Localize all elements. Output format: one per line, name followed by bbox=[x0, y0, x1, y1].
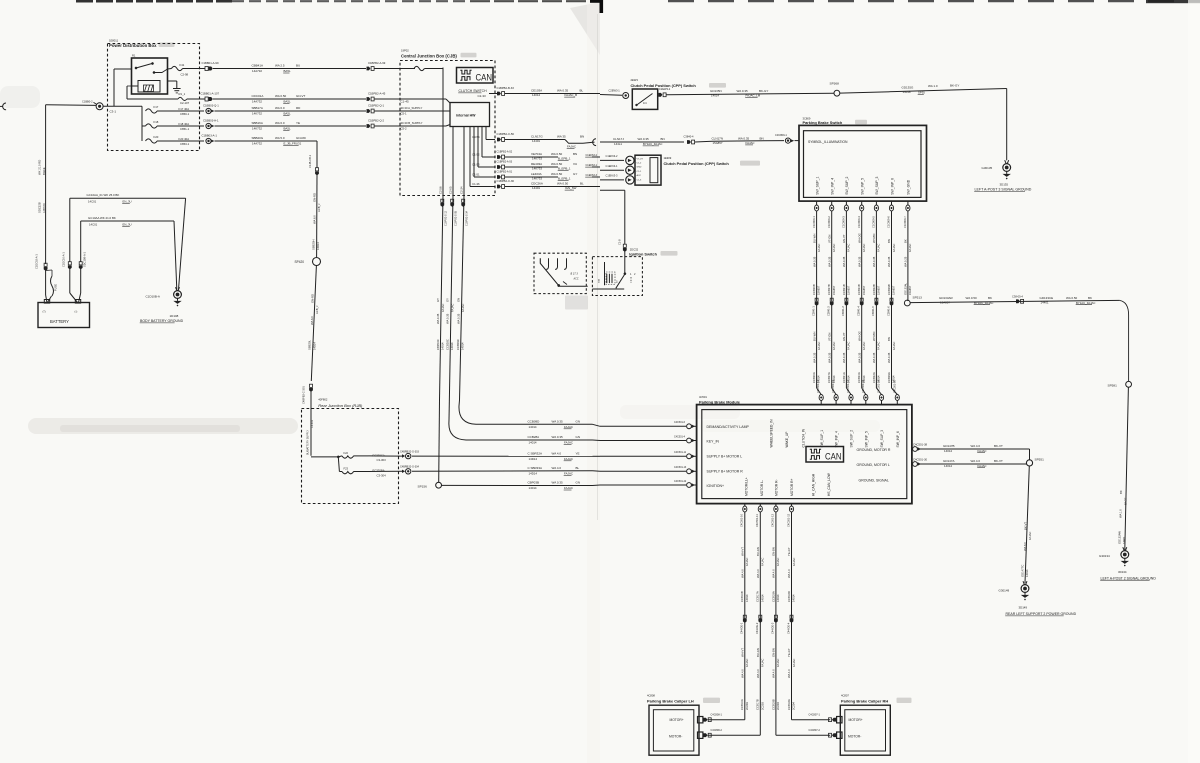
svg-text:WA 4.0: WA 4.0 bbox=[772, 569, 776, 578]
svg-text:C4C807-1: C4C807-1 bbox=[809, 713, 821, 716]
svg-text:F41: F41 bbox=[180, 63, 185, 67]
svg-text:14K732: 14K732 bbox=[252, 127, 262, 131]
svg-text:BL: BL bbox=[576, 466, 580, 470]
svg-text:R1_1: R1_1 bbox=[179, 92, 186, 96]
svg-text:GN-BN: GN-BN bbox=[772, 547, 776, 556]
svg-text:3D134: 3D134 bbox=[1118, 570, 1127, 574]
svg-text:15A857: 15A857 bbox=[847, 285, 851, 295]
svg-text:BN: BN bbox=[661, 137, 665, 141]
svg-text:C1C809-2: C1C809-2 bbox=[827, 216, 831, 228]
svg-text:30.30 A_SUPPLY: 30.30 A_SUPPLY bbox=[401, 106, 423, 110]
svg-text:15A857: 15A857 bbox=[817, 285, 821, 295]
svg-text:CBP03B: CBP03B bbox=[528, 481, 540, 485]
svg-text:WA 0.35: WA 0.35 bbox=[552, 481, 564, 485]
svg-text:4C501: 4C501 bbox=[699, 395, 707, 399]
svg-text:WA 0.35: WA 0.35 bbox=[887, 352, 891, 363]
svg-text:ACB_J: ACB_J bbox=[315, 305, 319, 314]
svg-text:BN: BN bbox=[760, 136, 764, 140]
svg-text:C1BPB2-A-52: C1BPB2-A-52 bbox=[497, 151, 513, 154]
svg-text:FAJAC: FAJAC bbox=[450, 304, 454, 312]
svg-text:B_EPB_1: B_EPB_1 bbox=[558, 167, 571, 171]
svg-text:C1C809-4: C1C809-4 bbox=[857, 216, 861, 228]
svg-text:WA 0.35: WA 0.35 bbox=[842, 352, 846, 363]
svg-text:SP513: SP513 bbox=[913, 296, 923, 300]
svg-text:BU: BU bbox=[296, 64, 300, 68]
svg-text:WA 4.0: WA 4.0 bbox=[971, 444, 981, 448]
svg-text:MOTOR+: MOTOR+ bbox=[849, 718, 863, 722]
svg-text:Parking Brake Caliper RH: Parking Brake Caliper RH bbox=[841, 698, 888, 703]
svg-text:C1BPB2-A-45: C1BPB2-A-45 bbox=[368, 91, 386, 95]
svg-text:SDC32B: SDC32B bbox=[38, 202, 42, 213]
svg-text:14401: 14401 bbox=[532, 139, 540, 143]
svg-text:BU-WH: BU-WH bbox=[812, 234, 816, 243]
svg-text:FAJAC: FAJAC bbox=[441, 304, 445, 312]
svg-text:Parking Brake Module: Parking Brake Module bbox=[699, 400, 741, 405]
svg-text:WA 0.50: WA 0.50 bbox=[1066, 296, 1078, 300]
svg-text:GN: GN bbox=[456, 298, 460, 302]
svg-text:GY: GY bbox=[446, 298, 450, 302]
svg-text:GND: GND bbox=[637, 167, 642, 169]
svg-text:WA 4.0: WA 4.0 bbox=[787, 669, 791, 678]
svg-text:C1EK63-2: C1EK63-2 bbox=[606, 154, 619, 158]
svg-text:C1-45: C1-45 bbox=[401, 99, 410, 103]
svg-text:WA 0.50: WA 0.50 bbox=[551, 162, 563, 166]
svg-text:BY1AC_FAJAC: BY1AC_FAJAC bbox=[1076, 301, 1095, 305]
svg-text:C4C501-4: C4C501-4 bbox=[674, 435, 686, 438]
svg-text:FAJAC: FAJAC bbox=[746, 141, 755, 145]
svg-text:C4C807-2: C4C807-2 bbox=[809, 729, 821, 732]
svg-text:WA 2.5: WA 2.5 bbox=[275, 64, 285, 68]
svg-text:WA 6.0: WA 6.0 bbox=[1023, 542, 1027, 551]
svg-text:FAJAC: FAJAC bbox=[862, 342, 866, 350]
svg-text:WA 6.0: WA 6.0 bbox=[275, 106, 285, 110]
svg-text:WA 6.0: WA 6.0 bbox=[313, 215, 317, 224]
svg-text:internal HW: internal HW bbox=[456, 114, 476, 118]
svg-text:SW_INP_6: SW_INP_6 bbox=[890, 178, 894, 195]
svg-text:14014: 14014 bbox=[450, 342, 454, 350]
svg-text:FAJAC: FAJAC bbox=[817, 342, 821, 350]
svg-text:C1C809-3: C1C809-3 bbox=[842, 216, 846, 228]
svg-text:VT-GN: VT-GN bbox=[827, 333, 831, 341]
svg-text:F20: F20 bbox=[154, 135, 159, 139]
svg-text:C1-2: C1-2 bbox=[637, 163, 643, 165]
svg-text:Central Junction Box (CJB): Central Junction Box (CJB) bbox=[401, 53, 457, 58]
svg-text:FAJAC_LM: FAJAC_LM bbox=[746, 94, 761, 98]
svg-text:FAJAC: FAJAC bbox=[567, 145, 576, 149]
svg-text:C4BRB32-G-303: C4BRB32-G-303 bbox=[400, 450, 420, 453]
svg-text:SDC10B-A-1: SDC10B-A-1 bbox=[83, 251, 87, 267]
svg-text:SBB20L: SBB20L bbox=[308, 339, 312, 350]
svg-text:C3-301: C3-301 bbox=[311, 419, 314, 428]
svg-text:BK-VT: BK-VT bbox=[994, 444, 1003, 448]
svg-text:C4C501-19: C4C501-19 bbox=[877, 379, 881, 393]
svg-text:MOTOR L-: MOTOR L- bbox=[760, 480, 764, 496]
svg-text:GD147TC: GD147TC bbox=[1020, 565, 1024, 577]
svg-text:KEY_IN: KEY_IN bbox=[707, 440, 720, 444]
svg-text:FAJAC: FAJAC bbox=[761, 659, 765, 667]
svg-text:MOTOR-: MOTOR- bbox=[669, 735, 682, 739]
svg-text:14014: 14014 bbox=[776, 594, 780, 602]
svg-text:WA 1.0: WA 1.0 bbox=[1118, 509, 1122, 518]
svg-text:WA 6.0: WA 6.0 bbox=[310, 316, 314, 325]
svg-text:SW_INP_5: SW_INP_5 bbox=[861, 178, 865, 195]
svg-text:GD133AR: GD133AR bbox=[939, 296, 954, 300]
svg-text:WA 0.35: WA 0.35 bbox=[842, 256, 846, 267]
svg-text:YE: YE bbox=[296, 121, 300, 125]
svg-text:CCB21A: CCB21A bbox=[842, 372, 846, 383]
svg-text:WA 0.35: WA 0.35 bbox=[857, 352, 861, 363]
svg-text:C4C808-1: C4C808-1 bbox=[711, 713, 723, 716]
svg-text:EN_3U: EN_3U bbox=[123, 200, 132, 204]
svg-text:GN: GN bbox=[576, 481, 581, 485]
svg-text:GC10AA_01 WK 25.0 BK: GC10AA_01 WK 25.0 BK bbox=[87, 193, 120, 197]
svg-text:BU-GN: BU-GN bbox=[756, 648, 760, 657]
svg-text:14014: 14014 bbox=[1025, 569, 1029, 577]
svg-text:WA 0.35: WA 0.35 bbox=[557, 89, 569, 93]
svg-text:CCB29B: CCB29B bbox=[887, 284, 891, 295]
svg-text:WA 4.0: WA 4.0 bbox=[971, 459, 981, 463]
svg-text:14014: 14014 bbox=[944, 449, 952, 453]
svg-text:FC370BA: FC370BA bbox=[373, 469, 385, 473]
svg-text:REAR LEFT SUPPORT 2 POWER GROU: REAR LEFT SUPPORT 2 POWER GROUND bbox=[1006, 612, 1077, 616]
svg-text:SW_INP_5: SW_INP_5 bbox=[864, 431, 868, 447]
svg-text:CCB09D: CCB09D bbox=[528, 420, 541, 424]
svg-text:3D135: 3D135 bbox=[1000, 182, 1009, 186]
svg-text:1/4: 1/4 bbox=[643, 101, 647, 105]
svg-text:Ignition Switch: Ignition Switch bbox=[629, 252, 657, 257]
svg-text:CLN17J: CLN17J bbox=[613, 137, 624, 141]
svg-text:FAJAC: FAJAC bbox=[564, 441, 573, 445]
svg-text:C SBR33A: C SBR33A bbox=[528, 466, 543, 470]
svg-text:CCB28C: CCB28C bbox=[445, 339, 449, 350]
svg-text:CLUTCH_IN: CLUTCH_IN bbox=[801, 428, 805, 447]
svg-text:C3-54: C3-54 bbox=[472, 135, 480, 139]
svg-text:C853-1: C853-1 bbox=[180, 142, 190, 146]
svg-text:1D108: 1D108 bbox=[170, 314, 179, 318]
svg-text:FAJAC: FAJAC bbox=[832, 342, 836, 350]
svg-text:CCB28A: CCB28A bbox=[528, 435, 540, 439]
svg-text:C1-52: C1-52 bbox=[472, 153, 480, 157]
svg-text:GY: GY bbox=[573, 172, 577, 176]
svg-text:FAJAC: FAJAC bbox=[564, 425, 573, 429]
svg-text:SBB20H: SBB20H bbox=[311, 239, 315, 250]
svg-text:C1-1: C1-1 bbox=[637, 171, 643, 173]
svg-text:15A857: 15A857 bbox=[832, 285, 836, 295]
svg-text:C1D10B-A: C1D10B-A bbox=[146, 295, 160, 299]
svg-text:WA 0.35: WA 0.35 bbox=[887, 256, 891, 267]
svg-text:C4C501-12: C4C501-12 bbox=[771, 513, 775, 527]
svg-text:CBP03C: CBP03C bbox=[436, 339, 440, 350]
svg-text:BU-GN: BU-GN bbox=[756, 547, 760, 556]
svg-text:WH-OG: WH-OG bbox=[857, 331, 861, 341]
svg-text:FAJAC: FAJAC bbox=[776, 558, 780, 566]
svg-text:WH-OG: WH-OG bbox=[857, 233, 861, 243]
svg-text:14D14: 14D14 bbox=[312, 342, 316, 350]
svg-text:CCB24B: CCB24B bbox=[857, 284, 861, 295]
svg-text:FAJAC: FAJAC bbox=[892, 244, 896, 252]
svg-text:MOTOR+: MOTOR+ bbox=[670, 718, 684, 722]
svg-text:Power Distribution Box: Power Distribution Box bbox=[109, 43, 157, 48]
svg-text:FAJAC: FAJAC bbox=[792, 659, 796, 667]
svg-text:14401: 14401 bbox=[1122, 536, 1126, 544]
svg-text:HI_CAN_HIGH: HI_CAN_HIGH bbox=[812, 473, 816, 496]
svg-text:C1BPB2-A-99: C1BPB2-A-99 bbox=[368, 61, 386, 65]
svg-text:C2EW3-1: C2EW3-1 bbox=[609, 89, 621, 93]
svg-text:FAJAC: FAJAC bbox=[564, 457, 573, 461]
svg-text:40F802: 40F802 bbox=[318, 398, 328, 402]
svg-text:GD133AW: GD133AW bbox=[1117, 531, 1121, 544]
svg-text:C1DC10-A-1: C1DC10-A-1 bbox=[62, 252, 66, 267]
svg-text:WK 21.0 RD: WK 21.0 RD bbox=[38, 160, 42, 175]
svg-text:F20 40A: F20 40A bbox=[179, 137, 190, 141]
svg-text:WA 0.35: WA 0.35 bbox=[872, 256, 876, 267]
svg-text:WA 0.50: WA 0.50 bbox=[966, 296, 978, 300]
svg-text:C1C809-7: C1C809-7 bbox=[903, 216, 907, 228]
svg-text:CCB17A: CCB17A bbox=[756, 591, 760, 602]
svg-text:1E909: 1E909 bbox=[664, 156, 672, 160]
svg-text:WA 0.35: WA 0.35 bbox=[827, 256, 831, 267]
svg-text:C1BPB2-A-51: C1BPB2-A-51 bbox=[497, 171, 513, 174]
svg-text:BA5L: BA5L bbox=[284, 100, 291, 104]
svg-text:14K733: 14K733 bbox=[532, 157, 542, 161]
svg-text:WA 0.35: WA 0.35 bbox=[638, 137, 650, 141]
svg-text:HS_CAN_LOW: HS_CAN_LOW bbox=[827, 472, 831, 496]
svg-text:GN-VT: GN-VT bbox=[842, 234, 846, 243]
svg-text:C3841-2: C3841-2 bbox=[827, 306, 831, 316]
svg-text:GROUND, MOTOR R: GROUND, MOTOR R bbox=[857, 448, 891, 452]
svg-text:CAN: CAN bbox=[476, 73, 493, 83]
svg-text:Clutch Pedal Position (CPP) Sw: Clutch Pedal Position (CPP) Switch bbox=[664, 161, 730, 166]
svg-text:144L1: 144L1 bbox=[614, 142, 622, 146]
svg-text:C1C809-1: C1C809-1 bbox=[812, 216, 816, 228]
svg-text:14014: 14014 bbox=[441, 342, 445, 350]
svg-text:C4C501-15: C4C501-15 bbox=[816, 379, 820, 393]
svg-text:G30134: G30134 bbox=[1099, 554, 1110, 558]
svg-text:CCB22B: CCB22B bbox=[872, 284, 876, 295]
svg-text:SW_SUP_2: SW_SUP_2 bbox=[845, 176, 849, 194]
svg-text:14014: 14014 bbox=[529, 486, 537, 490]
svg-text:30.30 B_SUPPLY: 30.30 B_SUPPLY bbox=[401, 121, 423, 125]
svg-text:SP420: SP420 bbox=[295, 260, 305, 264]
svg-text:FUSE: FUSE bbox=[54, 284, 58, 291]
svg-text:BODY BATTERY GROUND: BODY BATTERY GROUND bbox=[140, 319, 184, 323]
svg-text:FAJAC: FAJAC bbox=[461, 304, 465, 312]
svg-text:2C204: 2C204 bbox=[776, 702, 780, 710]
svg-text:CLN17G: CLN17G bbox=[531, 135, 543, 139]
svg-text:C1BB03-Q-1: C1BB03-Q-1 bbox=[203, 104, 219, 108]
svg-text:FAJAC: FAJAC bbox=[832, 244, 836, 252]
svg-text:WA 6.0: WA 6.0 bbox=[275, 121, 285, 125]
svg-text:C5-1: C5-1 bbox=[401, 111, 408, 115]
svg-text:FAJAC: FAJAC bbox=[776, 659, 780, 667]
svg-text:C1BPB2-A-53: C1BPB2-A-53 bbox=[497, 161, 513, 164]
svg-text:SW_SUP_1: SW_SUP_1 bbox=[820, 430, 824, 448]
svg-text:VT-UT: VT-UT bbox=[637, 158, 644, 160]
svg-text:C2-33: C2-33 bbox=[478, 94, 487, 98]
svg-text:14014: 14014 bbox=[711, 94, 719, 98]
svg-text:WA 5.0: WA 5.0 bbox=[275, 136, 285, 140]
svg-text:GROUND, SIGNAL: GROUND, SIGNAL bbox=[859, 478, 889, 482]
svg-text:RE403A: RE403A bbox=[531, 162, 542, 166]
svg-text:SP551: SP551 bbox=[1035, 458, 1045, 462]
svg-text:C1EK63-3: C1EK63-3 bbox=[606, 174, 619, 178]
svg-text:C3841-5: C3841-5 bbox=[871, 306, 875, 316]
svg-text:WA 0.50: WA 0.50 bbox=[275, 94, 287, 98]
svg-text:C44-DE-3: C44-DE-3 bbox=[771, 622, 775, 634]
svg-text:GN: GN bbox=[576, 435, 581, 439]
svg-text:BK: BK bbox=[904, 239, 908, 243]
svg-text:BK: BK bbox=[1088, 296, 1092, 300]
svg-text:C1C809-6: C1C809-6 bbox=[887, 216, 891, 228]
svg-text:WH-BN: WH-BN bbox=[872, 234, 876, 243]
svg-text:2C204: 2C204 bbox=[792, 702, 796, 710]
svg-text:CLUTCH SWITCH: CLUTCH SWITCH bbox=[459, 89, 488, 93]
svg-text:C2-05: C2-05 bbox=[449, 186, 453, 194]
svg-text:FAJAC: FAJAC bbox=[908, 244, 912, 252]
svg-text:BU/BATTERY SUPPLY: BU/BATTERY SUPPLY bbox=[306, 429, 309, 455]
svg-text:FAJAC: FAJAC bbox=[817, 244, 821, 252]
svg-text:14D14: 14D14 bbox=[316, 242, 320, 250]
svg-text:SW_SUP_3: SW_SUP_3 bbox=[875, 176, 879, 194]
svg-text:SBB17A: SBB17A bbox=[252, 106, 263, 110]
svg-text:YE-GY: YE-GY bbox=[787, 648, 791, 657]
svg-text:FAJAC: FAJAC bbox=[847, 244, 851, 252]
svg-text:GY: GY bbox=[436, 298, 440, 302]
svg-text:G30149: G30149 bbox=[999, 589, 1010, 593]
svg-text:C44-DE-4: C44-DE-4 bbox=[786, 622, 790, 634]
svg-text:SW_GND: SW_GND bbox=[907, 179, 911, 194]
svg-text:BL: BL bbox=[580, 89, 584, 93]
svg-text:C1JB-CB-1: C1JB-CB-1 bbox=[308, 154, 312, 168]
svg-text:C4C501-13: C4C501-13 bbox=[674, 466, 687, 469]
svg-text:C1EK63-1: C1EK63-1 bbox=[606, 164, 619, 168]
svg-text:C1BB03-A-1: C1BB03-A-1 bbox=[202, 134, 218, 138]
svg-text:WA 0.35: WA 0.35 bbox=[872, 352, 876, 363]
svg-text:C1-51: C1-51 bbox=[472, 173, 480, 177]
svg-text:C1BB01-A-107: C1BB01-A-107 bbox=[201, 92, 220, 96]
svg-text:C4BPB2-C-301: C4BPB2-C-301 bbox=[302, 386, 306, 404]
svg-text:SP581: SP581 bbox=[1108, 383, 1118, 387]
svg-text:WA 0.35: WA 0.35 bbox=[456, 313, 460, 324]
svg-text:C4C501-20: C4C501-20 bbox=[892, 379, 896, 393]
svg-text:14K733: 14K733 bbox=[532, 167, 542, 171]
svg-text:C1C809-5: C1C809-5 bbox=[872, 216, 876, 228]
svg-text:FAJAC_B: FAJAC_B bbox=[565, 93, 578, 97]
svg-text:CBB41A: CBB41A bbox=[252, 64, 264, 68]
svg-text:14401: 14401 bbox=[532, 186, 540, 190]
svg-text:C38-05-4: C38-05-4 bbox=[1012, 294, 1023, 298]
svg-text:BK-GY: BK-GY bbox=[759, 89, 768, 93]
svg-text:CE103A: CE103A bbox=[531, 89, 542, 93]
svg-text:14A732: 14A732 bbox=[252, 142, 262, 146]
svg-text:C4C501-11: C4C501-11 bbox=[674, 451, 687, 454]
svg-text:FAJAC: FAJAC bbox=[892, 342, 896, 350]
svg-text:CCB19B: CCB19B bbox=[771, 699, 775, 710]
svg-text:WA 4.0: WA 4.0 bbox=[741, 569, 745, 578]
svg-text:C1BPB2-E-05: C1BPB2-E-05 bbox=[454, 210, 457, 226]
svg-text:C4C501-22: C4C501-22 bbox=[674, 480, 687, 483]
svg-text:14014: 14014 bbox=[529, 425, 537, 429]
svg-text:C1BPB2-Q-1: C1BPB2-Q-1 bbox=[368, 103, 385, 107]
svg-text:GD147A: GD147A bbox=[943, 459, 955, 463]
svg-text:4C808: 4C808 bbox=[647, 693, 655, 697]
svg-text:19P02: 19P02 bbox=[401, 49, 409, 53]
svg-text:BK: BK bbox=[988, 296, 992, 300]
svg-text:14K732: 14K732 bbox=[252, 112, 262, 116]
svg-text:WA 0.25: WA 0.25 bbox=[904, 256, 908, 267]
svg-text:CCB09C: CCB09C bbox=[456, 339, 460, 350]
svg-text:GN-RD: GN-RD bbox=[313, 193, 317, 202]
svg-text:FAJAC: FAJAC bbox=[564, 486, 573, 490]
svg-text:MOTOR R-: MOTOR R- bbox=[775, 479, 779, 496]
svg-text:14014: 14014 bbox=[745, 594, 749, 602]
svg-text:C4C501-38: C4C501-38 bbox=[913, 442, 928, 446]
svg-text:GN-RD: GN-RD bbox=[296, 136, 307, 140]
svg-text:GD135N: GD135N bbox=[710, 89, 722, 93]
svg-text:CCB17B: CCB17B bbox=[756, 699, 760, 710]
svg-text:C3-304: C3-304 bbox=[377, 474, 387, 478]
svg-text:FAJAC: FAJAC bbox=[978, 464, 987, 468]
svg-text:GC10AA WK 21.0 BK: GC10AA WK 21.0 BK bbox=[88, 216, 116, 220]
svg-text:GD147B: GD147B bbox=[943, 444, 955, 448]
svg-text:C2-56: C2-56 bbox=[439, 186, 443, 194]
svg-text:FAJAC: FAJAC bbox=[978, 449, 987, 453]
svg-text:SYMBOL_ILLUMINATION: SYMBOL_ILLUMINATION bbox=[808, 140, 848, 144]
svg-text:SBB16A: SBB16A bbox=[252, 121, 263, 125]
svg-text:WA 0.50: WA 0.50 bbox=[557, 182, 569, 186]
svg-text:WA 0.50: WA 0.50 bbox=[551, 172, 563, 176]
svg-text:Rear Junction Box (RJB): Rear Junction Box (RJB) bbox=[318, 403, 363, 408]
svg-text:14A732: 14A732 bbox=[252, 69, 262, 73]
svg-text:GN-VT: GN-VT bbox=[842, 332, 846, 341]
svg-text:WA 0.35: WA 0.35 bbox=[737, 89, 749, 93]
svg-text:C1BB01-A-99: C1BB01-A-99 bbox=[202, 61, 219, 65]
svg-text:C4C501-11: C4C501-11 bbox=[755, 514, 759, 527]
svg-text:C1-53: C1-53 bbox=[472, 163, 480, 167]
svg-text:15A857: 15A857 bbox=[908, 285, 912, 295]
svg-text:GN-BN: GN-BN bbox=[772, 648, 776, 657]
svg-text:SP35: SP35 bbox=[918, 90, 925, 94]
svg-text:2C203: 2C203 bbox=[760, 702, 764, 710]
svg-text:C4C501-16: C4C501-16 bbox=[831, 379, 835, 393]
svg-text:LEFT A-POST 3 SIGNAL GROUND: LEFT A-POST 3 SIGNAL GROUND bbox=[975, 188, 1032, 192]
svg-text:WA 35: WA 35 bbox=[557, 135, 566, 139]
svg-text:FAJAC: FAJAC bbox=[1028, 532, 1032, 540]
svg-text:IGNITION+: IGNITION+ bbox=[707, 484, 725, 488]
svg-text:SW_SUP_3: SW_SUP_3 bbox=[880, 430, 884, 448]
svg-text:WA 0.35: WA 0.35 bbox=[812, 256, 816, 267]
svg-text:14K733: 14K733 bbox=[532, 177, 542, 181]
svg-text:BU-WH: BU-WH bbox=[812, 332, 816, 341]
svg-text:CCB27B: CCB27B bbox=[827, 284, 831, 295]
svg-text:C1BPB2-E-12: C1BPB2-E-12 bbox=[445, 210, 448, 226]
svg-text:14B723: 14B723 bbox=[42, 203, 46, 213]
svg-text:C3841-6: C3841-6 bbox=[886, 306, 890, 316]
svg-text:MOTOR R+: MOTOR R+ bbox=[790, 478, 794, 496]
svg-text:B 17.3: B 17.3 bbox=[571, 273, 579, 276]
svg-text:CDC26A: CDC26A bbox=[531, 182, 543, 186]
svg-text:14014: 14014 bbox=[461, 342, 465, 350]
svg-text:BAGE: BAGE bbox=[42, 167, 46, 175]
svg-text:1E8011: 1E8011 bbox=[109, 39, 119, 43]
svg-text:F23: F23 bbox=[344, 466, 349, 470]
svg-text:BN: BN bbox=[887, 337, 891, 341]
svg-text:C1BB03-H-1: C1BB03-H-1 bbox=[203, 119, 219, 123]
svg-text:WA 4.0: WA 4.0 bbox=[741, 669, 745, 678]
svg-text:C1-36: C1-36 bbox=[472, 182, 480, 186]
svg-text:FAJAC: FAJAC bbox=[761, 558, 765, 566]
svg-text:CCB29A: CCB29A bbox=[887, 372, 891, 383]
